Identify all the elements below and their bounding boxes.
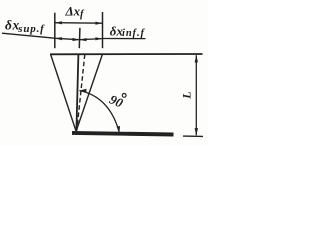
label delta-x-sup.f	[5, 17, 45, 34]
arrowhead inf left	[80, 38, 87, 41]
nominal vertical axis	[76, 54, 78, 130]
fan right extreme axis	[76, 54, 102, 131]
dimension line delta-x-sup	[55, 38, 80, 39]
dimension line Delta-x-f	[55, 22, 103, 25]
leader line delta-x-sup	[2, 33, 55, 38]
svg-text:L: L	[179, 91, 193, 99]
svg-text:Δx: Δx	[65, 3, 81, 18]
arrowhead sup left	[55, 37, 62, 40]
label delta-x-inf.f	[110, 23, 146, 39]
arrowhead arc upper (points left at dashed axis)	[79, 89, 86, 93]
arrowhead arc lower (points down at base)	[117, 126, 120, 133]
extension line left tick	[54, 13, 56, 49]
extension line right tick	[102, 12, 104, 48]
arrowhead Delta right	[95, 22, 102, 25]
label Delta-x-f	[65, 3, 86, 20]
arrowhead sup right	[73, 38, 80, 41]
actual axis dashed	[77, 54, 85, 130]
top surface line	[50, 53, 203, 55]
angle arc 90deg	[79, 91, 119, 134]
L dimension line	[195, 55, 197, 135]
fan left extreme axis	[51, 54, 76, 131]
base thick line	[72, 133, 174, 135]
arrowhead L bottom	[195, 128, 198, 135]
dimension line delta-x-inf	[80, 39, 103, 40]
L bottom extension tick	[183, 135, 203, 137]
svg-text:f: f	[80, 9, 85, 20]
degree circle of 90deg label	[122, 94, 126, 98]
arrowhead Delta left	[55, 21, 62, 24]
arrowhead L top	[195, 55, 198, 62]
leader line delta-x-inf	[102, 38, 145, 40]
svg-text:inf.f: inf.f	[122, 28, 145, 39]
svg-text:sup.f: sup.f	[17, 23, 45, 35]
arrowhead inf right	[95, 37, 102, 40]
extension line middle tick	[78, 28, 81, 48]
